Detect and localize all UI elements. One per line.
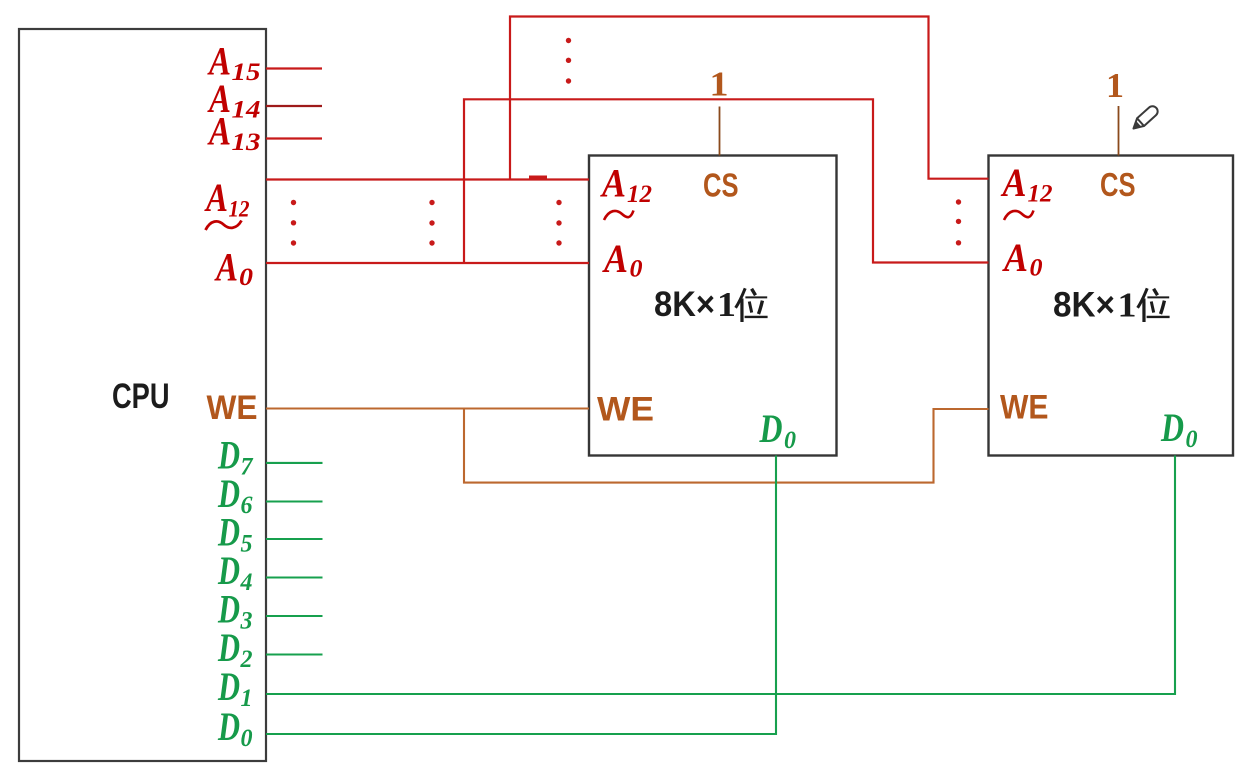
svg-text:1: 1 [1106, 66, 1124, 105]
svg-text:12: 12 [627, 181, 652, 208]
svg-text:0: 0 [1186, 426, 1198, 453]
svg-text:0: 0 [784, 427, 796, 454]
svg-text:A: A [1001, 235, 1028, 280]
svg-text:12: 12 [229, 197, 250, 222]
svg-text:A: A [601, 236, 628, 281]
svg-text:1: 1 [1118, 286, 1137, 325]
svg-text:8K×: 8K× [1053, 286, 1115, 325]
svg-text:A: A [214, 245, 238, 290]
svg-text:A: A [207, 109, 231, 154]
svg-text:13: 13 [232, 129, 261, 156]
svg-text:WE: WE [597, 391, 654, 429]
svg-text:WE: WE [1000, 389, 1049, 427]
svg-text:CPU: CPU [112, 377, 170, 416]
svg-text:A: A [1000, 160, 1027, 205]
svg-text:WE: WE [207, 389, 258, 427]
svg-text:D: D [217, 704, 240, 749]
svg-text:D: D [759, 406, 783, 451]
svg-text:2: 2 [240, 646, 253, 673]
svg-text:CS: CS [1100, 166, 1136, 203]
svg-text:8K×: 8K× [654, 285, 715, 324]
svg-text:A: A [204, 175, 228, 220]
svg-text:7: 7 [241, 454, 254, 481]
svg-text:1: 1 [241, 685, 253, 712]
svg-text:0: 0 [1030, 255, 1044, 282]
svg-text:0: 0 [239, 264, 254, 291]
svg-text:D: D [217, 664, 240, 709]
svg-text:14: 14 [232, 97, 261, 124]
svg-text:12: 12 [1028, 181, 1053, 208]
svg-text:1: 1 [717, 285, 736, 324]
svg-text:4: 4 [240, 569, 253, 596]
svg-text:1: 1 [710, 65, 729, 104]
svg-text:0: 0 [630, 256, 644, 283]
svg-text:6: 6 [241, 492, 253, 519]
svg-text:15: 15 [232, 59, 261, 86]
svg-text:CS: CS [703, 167, 739, 204]
svg-text:0: 0 [241, 725, 253, 752]
svg-text:5: 5 [241, 531, 253, 558]
svg-text:A: A [599, 161, 626, 206]
svg-text:D: D [1160, 405, 1184, 450]
svg-text:3: 3 [240, 608, 253, 635]
